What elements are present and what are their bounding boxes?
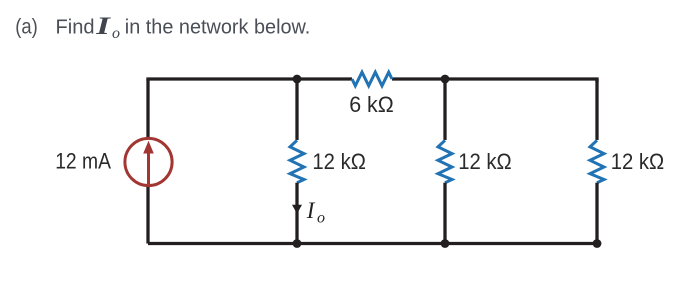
wire: branch node A lower segment with Io: [295, 183, 298, 244]
svg-text:in the network below.: in the network below.: [125, 17, 310, 39]
current source I1 arrow (points up): [143, 141, 154, 184]
junction: node A top: [293, 75, 302, 84]
wire: branch node A upper segment: [295, 79, 298, 140]
svg-text:12 mA: 12 mA: [55, 149, 111, 174]
title: (a) Find Io in the network below.: [15, 12, 310, 42]
wire: left side upper segment (top-left corner to current source): [146, 79, 149, 138]
svg-text:I: I: [95, 12, 111, 40]
wire: top side left segment (left corner to node A): [148, 79, 352, 81]
wire: branch node B upper segment: [443, 79, 446, 140]
wire: right side upper segment: [595, 79, 598, 140]
svg-text:(a): (a): [15, 16, 38, 39]
wire: bottom side: [148, 242, 597, 245]
svg-text:I: I: [306, 198, 316, 223]
junction: bottom-right corner: [593, 239, 602, 248]
svg-text:12 kΩ: 12 kΩ: [312, 149, 366, 174]
current Io arrowhead (points down): [292, 205, 302, 214]
wire: branch node B lower segment: [443, 183, 446, 244]
wire: top side right segment (node B to right corner): [392, 79, 597, 82]
svg-text:o: o: [112, 25, 120, 42]
junction: node B bottom: [441, 239, 450, 248]
wire: right side lower segment: [595, 183, 598, 244]
resistor R3 12 kOhm (vertical, second branch): [438, 140, 452, 182]
junction: node B top: [441, 75, 450, 84]
resistor R4 12 kOhm (vertical, right side): [590, 140, 604, 182]
svg-text:Find: Find: [56, 17, 95, 39]
current source I1 12 mA (circle): [125, 138, 172, 185]
svg-text:12 kΩ: 12 kΩ: [611, 149, 665, 174]
svg-text:6 kΩ: 6 kΩ: [349, 92, 394, 117]
wire: left side lower segment (current source to bottom-left corner): [146, 186, 149, 244]
svg-text:o: o: [317, 210, 325, 227]
junction: node A bottom: [293, 239, 302, 248]
resistor R2 12 kOhm (vertical, first branch): [290, 140, 304, 182]
resistor R1 6 kOhm (horizontal, top): [352, 72, 392, 86]
svg-text:12 kΩ: 12 kΩ: [458, 149, 512, 174]
label: Io current: [306, 198, 325, 227]
